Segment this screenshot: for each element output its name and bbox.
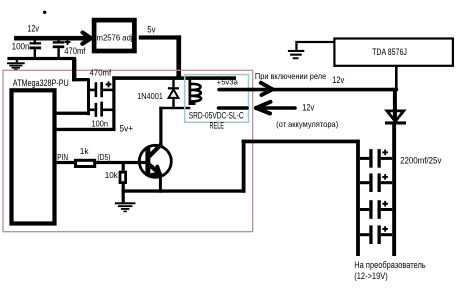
svg-text:(от аккумулятора): (от аккумулятора) [276, 119, 338, 129]
relay coil K1 [189, 77, 202, 105]
svg-text:SRD-05VDC-SL-C: SRD-05VDC-SL-C [189, 111, 244, 121]
IC TDA 8576J box [334, 39, 453, 66]
ground bus left of caps [87, 79, 90, 115]
wire 10k top stem [122, 164, 125, 171]
red highlight box [3, 70, 253, 231]
svg-text:На преобразователь: На преобразователь [354, 260, 426, 270]
svg-text:PIN: PIN [57, 152, 68, 162]
wire 12v battery stub [261, 106, 295, 110]
wire elbow from ground rail down [72, 59, 76, 82]
cap bank right rail [392, 125, 396, 257]
svg-text:12v: 12v [302, 103, 315, 113]
svg-text:1k: 1k [80, 146, 90, 156]
svg-text:(12->19V): (12->19V) [354, 271, 387, 281]
wire emitter bottom horizontal [122, 189, 246, 192]
wire ATMega gnd [54, 112, 89, 115]
wire base [96, 161, 145, 164]
wire relay COM contact [219, 106, 248, 110]
plus sign 470mf vcc [106, 82, 112, 88]
svg-text:+5v3a: +5v3a [217, 80, 238, 87]
arrowhead left (12v battery in) [256, 102, 271, 114]
wire emitter down [159, 177, 162, 192]
capacitor C7 2200mf [360, 200, 392, 219]
capacitor C8 2200mf [360, 225, 392, 244]
stray dot [43, 11, 46, 14]
diode D2 (blocking) [385, 110, 406, 125]
svg-text:RELE: RELE [210, 120, 225, 130]
svg-text:10k: 10k [105, 170, 119, 180]
arrowhead (relay output direction) [261, 83, 273, 95]
capacitor 100n (input) [30, 40, 42, 57]
transistor collector diagonal [149, 144, 162, 157]
wire diode bottom [159, 107, 190, 109]
svg-text:470mf: 470mf [90, 68, 112, 78]
wire 12v down to diode [393, 88, 397, 120]
resistor R 1k [76, 160, 95, 166]
svg-text:12v: 12v [332, 75, 344, 85]
transistor Q1 circle [139, 145, 171, 177]
capacitor 470mf (input) [53, 40, 65, 57]
svg-text:lm2576 adj: lm2576 adj [95, 33, 133, 43]
wire ATMega 5v+ [54, 128, 116, 131]
plus sign 470mf [65, 39, 71, 45]
wire 5v vertical down [176, 35, 181, 78]
cap bank left rail [356, 140, 360, 256]
wire PIN to 1k [56, 161, 75, 164]
wire 5v from regulator [139, 35, 181, 39]
relay box (teal) [185, 75, 249, 123]
transistor emitter diagonal [149, 165, 160, 174]
node 5v+ bus vertical [112, 76, 115, 131]
svg-text:470mf: 470mf [64, 46, 86, 56]
svg-text:TDA 8576J: TDA 8576J [372, 47, 407, 57]
wire TDA ground [295, 41, 335, 43]
wire riser to cap bank [242, 140, 246, 193]
wire 10k bottom stem [122, 184, 125, 202]
wire 12v input horizontal [14, 36, 88, 41]
svg-text:5v: 5v [147, 25, 156, 35]
arrowhead into regulator [82, 33, 91, 44]
ground symbol (emitter) [115, 202, 135, 212]
capacitor C5 2200mf [360, 149, 392, 168]
wire TDA down to 12v rail [395, 67, 398, 88]
svg-text:100n: 100n [92, 118, 109, 128]
svg-text:(D5): (D5) [97, 152, 110, 162]
svg-text:2200mf/25v: 2200mf/25v [400, 155, 442, 165]
svg-text:100n: 100n [12, 42, 30, 52]
wire relay NO contact to 12v rail [219, 88, 397, 92]
diode D1 1N4001 [168, 79, 179, 107]
svg-text:ATMega328P-PU: ATMega328P-PU [13, 78, 69, 88]
resistor R 10k [120, 172, 126, 183]
transistor base bar [145, 148, 150, 175]
wire elbow horizontal [72, 78, 90, 81]
wire relay feed 5v horizontal [112, 76, 236, 80]
transistor emitter arrowhead [152, 167, 160, 175]
regulator U1 lm2576 box [94, 20, 134, 51]
svg-text:5v+: 5v+ [120, 124, 134, 134]
ground symbol (input) [7, 60, 25, 70]
MCU ATMega328P-PU box [12, 90, 55, 223]
svg-text:При включении реле: При включении реле [255, 71, 327, 81]
ground symbol (TDA) [288, 43, 304, 59]
capacitor C6 2200mf [360, 173, 392, 192]
svg-text:12v: 12v [27, 24, 39, 34]
wire to cap bank horizontal [242, 140, 360, 144]
ground rail top-left [7, 57, 76, 60]
capacitor 470mf (vcc rail) [90, 82, 113, 97]
wire collector up [159, 107, 162, 147]
svg-text:1N4001: 1N4001 [137, 91, 163, 101]
capacitor 100n (vcc rail) [90, 102, 113, 117]
